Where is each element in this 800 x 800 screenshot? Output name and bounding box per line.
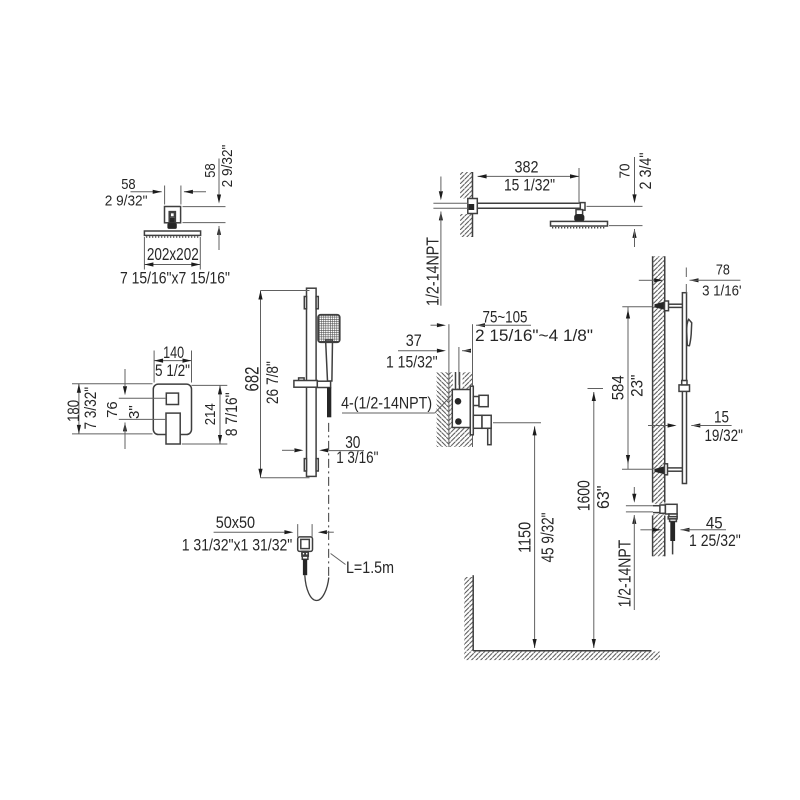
dim 76: extension lines	[119, 397, 166, 399]
cradle arm	[317, 381, 330, 387]
dim 78: dimension line and arrows	[639, 279, 654, 281]
svg-text:63": 63"	[593, 486, 613, 510]
corner wall line	[472, 575, 474, 651]
slider knob	[299, 378, 305, 381]
svg-text:75~105: 75~105	[483, 308, 528, 326]
dim 682: dimension line and arrows	[260, 291, 262, 478]
svg-text:3 1/16': 3 1/16'	[702, 283, 742, 300]
dim 50x50: dimension line and arrows	[214, 531, 285, 533]
svg-text:23": 23"	[629, 374, 647, 397]
right wall surface line	[652, 256, 654, 502]
dim 180: dimension line and arrows	[78, 384, 80, 434]
svg-text:26 7/8": 26 7/8"	[264, 361, 282, 404]
svg-text:1/2-14NPT: 1/2-14NPT	[614, 539, 634, 607]
mount stem	[169, 212, 175, 223]
dim 1/2-14NPT: arrows and leader	[440, 177, 442, 192]
dim 140: extension lines	[153, 351, 155, 383]
supply elbow (side view)	[652, 504, 665, 514]
dim 202x202: extension lines	[143, 237, 145, 270]
hose dark section	[303, 559, 307, 575]
svg-text:1 3/16": 1 3/16"	[336, 449, 378, 467]
svg-text:58: 58	[121, 176, 135, 193]
dim 70: extension lines	[587, 205, 643, 207]
svg-text:202x202: 202x202	[147, 244, 199, 264]
slider body	[294, 381, 317, 388]
svg-text:1600: 1600	[573, 480, 593, 511]
dim 1600: extension line	[588, 388, 604, 390]
svg-text:1 15/32": 1 15/32"	[386, 353, 438, 371]
dim 15: dimension line and arrows	[648, 425, 668, 427]
svg-text:2 9/32": 2 9/32"	[219, 145, 236, 188]
riser pipe gap in wall	[453, 371, 463, 389]
svg-text:682: 682	[242, 367, 263, 392]
leader L=1.5m	[331, 554, 346, 565]
svg-text:7 3/32": 7 3/32"	[82, 387, 100, 430]
floor line	[473, 650, 651, 652]
dim 682: extension lines	[261, 290, 310, 292]
svg-text:5 1/2": 5 1/2"	[155, 362, 190, 380]
trim plate (side)	[470, 386, 473, 435]
dim 1/2-14NPT: extension lines from arm	[433, 202, 468, 204]
dim 214: extension lines	[192, 384, 228, 386]
svg-text:1 25/32": 1 25/32"	[689, 532, 741, 550]
dim 58 vertical: extension lines	[183, 206, 226, 208]
hand shower handle	[326, 340, 333, 381]
dim 1600: dimension line and arrows	[593, 392, 595, 648]
svg-text:50x50: 50x50	[216, 514, 255, 532]
spray face dotted	[146, 236, 200, 238]
dim 180: extension lines	[72, 383, 153, 385]
svg-text:37: 37	[406, 332, 422, 350]
svg-text:45 9/32": 45 9/32"	[538, 513, 558, 563]
corner wall hatch (bottom left)	[464, 577, 473, 651]
hose (side view)	[670, 522, 675, 542]
hand shower head (front, textured)	[318, 315, 340, 342]
bottom mount tabs	[304, 459, 306, 471]
dim 1/2-14NPT right: extension lines	[626, 505, 653, 507]
floor hatch	[464, 652, 660, 661]
lower knob and lever	[473, 415, 482, 428]
dim 1150: dimension line and arrows	[534, 426, 536, 648]
dim 37: dimension line and arrows	[398, 350, 437, 352]
svg-text:78: 78	[716, 261, 730, 278]
shower head 202x202 (front view)	[144, 231, 200, 235]
dim 584: extension lines	[622, 306, 652, 308]
extension from handle to 1150 dim	[493, 422, 541, 424]
dim 58 horizontal: extension lines	[164, 186, 166, 205]
bottom bracket anchor	[654, 466, 664, 474]
arm wall flange	[468, 199, 478, 214]
ceiling mount escutcheon (front view)	[165, 207, 181, 223]
svg-text:L=1.5m: L=1.5m	[346, 559, 394, 577]
hand shower hooked (side view)	[687, 319, 692, 345]
dim 37: extension line	[458, 347, 460, 385]
top mount tabs	[304, 297, 306, 309]
slider (side view)	[679, 385, 690, 392]
outlet escutcheon (front view)	[298, 537, 313, 552]
dim 50x50: extension lines	[297, 524, 299, 537]
svg-text:2 3/4": 2 3/4"	[637, 152, 655, 189]
slide bar (front view)	[307, 288, 317, 476]
arm end cap	[580, 203, 585, 211]
dim 382: dimension line and arrows	[478, 175, 579, 177]
svg-text:140: 140	[163, 344, 184, 362]
right wall hatch	[653, 256, 665, 556]
dim 382: extension line	[578, 168, 580, 204]
svg-text:15: 15	[714, 409, 729, 427]
valve handle (front view)	[166, 413, 180, 444]
ball joint	[167, 223, 176, 229]
dim 30: dimension line and arrows	[282, 449, 294, 451]
hose upper	[302, 556, 308, 559]
svg-text:4-(1/2-14NPT): 4-(1/2-14NPT)	[341, 395, 432, 413]
upper knob	[473, 397, 479, 406]
hose nut	[302, 551, 308, 556]
rough-in line	[448, 324, 450, 447]
dim 70: dimension line and arrows	[634, 157, 636, 194]
svg-text:180: 180	[65, 400, 83, 422]
svg-text:45: 45	[706, 514, 723, 532]
ball joint collar	[576, 210, 583, 215]
svg-text:8 7/16": 8 7/16"	[223, 392, 241, 436]
dim 58 horizontal: dimension line and arrows	[131, 191, 162, 193]
svg-text:2 9/32": 2 9/32"	[105, 192, 148, 209]
valve trim plate (front view)	[153, 384, 191, 434]
valve body (side view)	[452, 390, 470, 428]
svg-text:1/2-14NPT: 1/2-14NPT	[422, 237, 442, 306]
top bracket anchor	[655, 302, 665, 310]
dim 58 vertical: dimension line and arrows	[218, 159, 220, 195]
hose end below handle	[327, 388, 331, 418]
wall section hatch (top right)	[460, 172, 473, 237]
ball joint knob	[574, 214, 584, 221]
wall section hatch around valve	[437, 372, 449, 447]
svg-text:15 1/32": 15 1/32"	[504, 176, 555, 194]
diverter button	[166, 393, 178, 404]
svg-text:1 31/32"x1 31/32": 1 31/32"x1 31/32"	[182, 537, 293, 555]
svg-text:2 15/16"~4 1/8": 2 15/16"~4 1/8"	[475, 327, 593, 345]
dim 214: dimension line and arrows	[219, 385, 221, 444]
svg-text:214: 214	[202, 403, 219, 425]
finished wall line	[472, 324, 474, 447]
shower head (side view)	[551, 221, 608, 226]
dim 140: dimension line and arrows	[154, 360, 191, 362]
wall surface line	[472, 172, 474, 237]
svg-text:76: 76	[104, 401, 121, 418]
dim 45: dimension line and arrows	[640, 529, 652, 531]
dim 584: dimension line and arrows	[627, 307, 629, 470]
svg-text:584: 584	[610, 375, 628, 400]
svg-text:382: 382	[515, 158, 539, 176]
svg-text:7 15/16"x7 15/16": 7 15/16"x7 15/16"	[120, 269, 230, 287]
dim 75~105: dimension line and arrows	[431, 324, 437, 326]
dim 202x202: dimension line and arrows	[144, 264, 200, 266]
svg-text:19/32": 19/32"	[704, 427, 743, 445]
center line (dash-dot)	[328, 423, 330, 576]
dim 76: dimension line and arrows	[124, 369, 126, 386]
svg-text:1150: 1150	[515, 522, 535, 553]
svg-text:3": 3"	[126, 405, 143, 419]
slide bar (side view)	[682, 293, 686, 484]
hose curve	[305, 575, 329, 600]
dim 1/2-14NPT right: arrows and leader	[633, 487, 635, 497]
svg-text:70: 70	[617, 164, 634, 179]
svg-text:58: 58	[202, 163, 219, 177]
shower arm	[477, 202, 580, 204]
